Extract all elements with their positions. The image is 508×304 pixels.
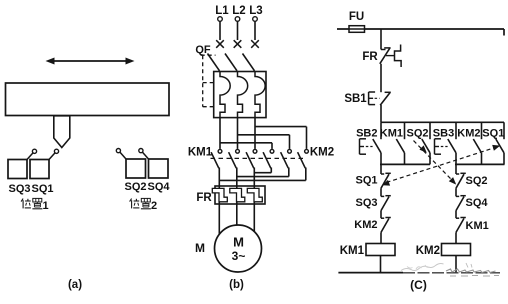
caption (C) — [410, 278, 427, 292]
contactor linkage dashed line — [211, 157, 304, 159]
breaker QF pole 3 cross — [251, 40, 259, 48]
wire FR to SB1 — [380, 64, 382, 92]
label SB3 (branch contact) — [433, 128, 454, 140]
contactor KM2 main contact 1 — [263, 149, 274, 168]
contactor KM1 main contact 1 — [211, 149, 222, 168]
wire FU-bus to FR contact — [380, 29, 382, 50]
svg-text:SB2: SB2 — [356, 128, 377, 140]
wire pole 3 below QF — [254, 118, 256, 149]
breaker QF body box — [214, 72, 266, 118]
wire KM1 interlock to KM2 coil — [455, 232, 457, 243]
breaker QF trip linkage (dashed) — [201, 55, 216, 106]
supply terminal L1 — [218, 17, 223, 22]
label KM1 (coil) — [340, 245, 365, 257]
limit switch SQ2 NO contact — [422, 122, 430, 164]
control bus after SB1 — [381, 121, 504, 123]
svg-text:SQ4: SQ4 — [147, 181, 170, 193]
wire L2 drop — [237, 22, 239, 41]
label SB1 — [344, 93, 367, 105]
right parallel-group bottom bus — [455, 163, 505, 165]
contactor coil KM1 — [366, 244, 395, 256]
control bottom bus continued (faded) — [403, 272, 500, 274]
watermark scribble — [401, 263, 499, 276]
start button SB3 contact — [448, 122, 456, 164]
limit switch SQ2 NC contact — [456, 173, 466, 188]
mechanical link SQ1 (dashed with arrows) — [382, 145, 500, 186]
contactor coil KM2 — [442, 244, 471, 256]
fuse FU — [349, 26, 365, 33]
wire left branch to SQ1 — [380, 164, 382, 174]
label SQ2 (NC) — [466, 175, 488, 187]
wire L3 drop — [254, 22, 256, 41]
start button SB2 contact — [373, 122, 381, 164]
caption (a) — [68, 279, 82, 291]
wire right branch to SQ2 — [455, 164, 457, 174]
limit switch SQ4 lever — [139, 149, 149, 160]
contactor KM2 interlock NC contact — [381, 218, 391, 233]
label SQ4 — [466, 197, 489, 209]
label L3 — [249, 5, 262, 17]
control bus top — [337, 29, 504, 36]
svg-text:KM2: KM2 — [416, 245, 440, 257]
svg-text:SQ4: SQ4 — [466, 197, 489, 209]
svg-text:M: M — [233, 235, 244, 250]
svg-text:L1: L1 — [215, 5, 229, 17]
wire KM2 contact1 crossback to phase3 — [255, 168, 271, 173]
breaker QF pole 2 cross — [234, 40, 242, 48]
label FU — [349, 11, 364, 23]
limit switch SQ2 box — [126, 159, 146, 178]
svg-text:SQ2: SQ2 — [406, 128, 428, 140]
label M — [195, 241, 205, 255]
wire KM1 contact 2 to FR — [236, 168, 238, 189]
wire SQ3 to KM2 interlock — [380, 211, 382, 219]
label SQ3 — [355, 197, 377, 209]
svg-text:(C): (C) — [410, 278, 427, 292]
limit switch SQ3 NC contact — [381, 196, 391, 211]
label SQ1 — [31, 183, 53, 195]
breaker QF pole 2 blade — [225, 54, 237, 71]
double-headed motion arrow — [46, 58, 135, 65]
svg-text:2: 2 — [151, 200, 157, 212]
wire pole 2 below QF — [237, 118, 239, 149]
svg-text:1: 1 — [42, 200, 48, 212]
cam dog on platform — [54, 116, 70, 148]
motor M circle — [215, 225, 262, 272]
label KM2 (interlock) — [354, 219, 377, 231]
svg-text:SQ3: SQ3 — [8, 183, 30, 195]
label SQ1 (branch contact) — [482, 128, 504, 140]
wire tap phase3 to KM2 — [255, 127, 307, 149]
FR heater element 2 — [230, 188, 245, 201]
svg-text:KM2: KM2 — [457, 128, 480, 140]
svg-text:KM1: KM1 — [466, 220, 489, 232]
label SQ2 — [124, 181, 146, 193]
svg-text:3~: 3~ — [232, 249, 246, 263]
thermal relay FR box — [215, 186, 265, 204]
contactor KM2 main contact 3 — [298, 149, 309, 168]
thermal relay FR break contact — [380, 45, 401, 68]
limit switch SQ2 lever — [116, 149, 126, 160]
contactor KM2 main contact 2 — [281, 149, 292, 168]
svg-text:SB3: SB3 — [433, 128, 454, 140]
breaker QF pole 3 trip element — [255, 72, 265, 118]
svg-text:SQ3: SQ3 — [355, 197, 377, 209]
svg-text:KM1: KM1 — [188, 147, 213, 159]
svg-text:L2: L2 — [232, 5, 245, 17]
left parallel-group bottom bus — [380, 163, 430, 165]
wire pole 1 below QF — [219, 118, 221, 149]
control bottom bus — [338, 272, 403, 274]
label SB2 (branch contact) — [356, 128, 377, 140]
label FR (c) — [362, 51, 378, 63]
svg-text:FU: FU — [349, 11, 364, 23]
wire FR to motor 3 — [253, 202, 255, 234]
svg-text:KM1: KM1 — [380, 128, 403, 140]
svg-text:FR: FR — [196, 192, 212, 204]
FR heater element 3 — [247, 188, 262, 201]
wire SQ2 to SQ4 — [455, 188, 457, 196]
limit switch SQ4 NC contact — [456, 196, 466, 211]
wire L1 drop — [219, 22, 221, 41]
svg-text:SQ1: SQ1 — [31, 183, 53, 195]
supply terminal L3 — [253, 17, 258, 22]
label position-2 (wei zhi 2) — [130, 198, 157, 212]
contactor KM1 interlock NC contact — [456, 218, 466, 233]
label SQ4 — [147, 181, 170, 193]
breaker QF pole 1 blade — [208, 54, 220, 71]
label L1 — [215, 5, 229, 17]
limit switch SQ4 box — [149, 159, 169, 178]
svg-text:KM2: KM2 — [354, 219, 377, 231]
svg-text:(a): (a) — [68, 279, 82, 291]
svg-text:(b): (b) — [229, 279, 244, 291]
breaker QF pole 2 trip element — [238, 72, 248, 118]
label position-1 (wei zhi 1) — [21, 198, 48, 212]
label SQ3 — [8, 183, 30, 195]
svg-text:SB1: SB1 — [344, 93, 367, 105]
FR heater element 1 — [212, 188, 227, 201]
label KM1 (interlock) — [466, 220, 489, 232]
wire KM1 contact 3 to FR — [253, 168, 255, 189]
label L2 — [232, 5, 245, 17]
svg-text:KM1: KM1 — [340, 245, 365, 257]
wire KM2 contact3 crossback to phase1 — [220, 168, 306, 181]
label KM2 (main) — [310, 147, 334, 159]
wire SB1 to bus2 — [380, 105, 382, 122]
mechanical link SQ2 (dashed with arrows) — [414, 141, 457, 185]
contactor KM2 self-hold contact — [473, 122, 481, 164]
wire KM2 interlock to KM1 coil — [380, 232, 382, 243]
limit switch SQ1 NC contact — [381, 173, 391, 188]
label FR (b) — [196, 192, 212, 204]
workbench platform — [6, 83, 170, 116]
svg-text:SQ2: SQ2 — [124, 181, 146, 193]
limit switch SQ1 box — [30, 160, 49, 179]
label SQ1 (NC) — [355, 175, 377, 187]
wire KM2 coil to bottom bus — [455, 256, 457, 273]
svg-text:SQ2: SQ2 — [466, 175, 488, 187]
label KM1 (branch contact) — [380, 128, 403, 140]
SB3 pushbutton actuator — [435, 139, 448, 154]
label KM2 (branch contact) — [457, 128, 480, 140]
wire tap phase1 to KM2 — [220, 143, 272, 149]
contactor KM1 main contact 2 — [229, 149, 240, 168]
caption (b) — [229, 279, 244, 291]
label KM1 (main) — [188, 147, 213, 159]
limit switch SQ1 NO contact — [496, 122, 504, 164]
SB2 pushbutton actuator — [360, 139, 373, 154]
label QF — [195, 44, 211, 56]
wire SQ4 to KM1 interlock — [455, 211, 457, 219]
svg-text:QF: QF — [195, 44, 211, 56]
svg-text:SQ1: SQ1 — [355, 175, 377, 187]
wire tap phase2 to KM2 — [238, 135, 290, 149]
limit switch SQ3 box — [8, 160, 27, 179]
breaker QF pole 1 trip element — [220, 72, 230, 118]
contactor KM1 self-hold contact — [396, 122, 404, 164]
breaker QF pole 3 blade — [243, 54, 255, 71]
limit switch SQ3 lever — [27, 149, 37, 159]
limit switch SQ1 lever — [49, 149, 59, 159]
svg-text:KM2: KM2 — [310, 147, 334, 159]
supply terminal L2 — [235, 17, 240, 22]
label KM2 (coil) — [416, 245, 440, 257]
stop button SB1 (NC) — [369, 92, 391, 105]
breaker QF pole 1 cross — [216, 40, 224, 48]
svg-text:L3: L3 — [249, 5, 262, 17]
svg-text:SQ1: SQ1 — [482, 128, 504, 140]
svg-text:FR: FR — [362, 51, 378, 63]
wire KM1 contact 1 to FR — [218, 168, 220, 189]
wire KM2 contact2 crossback to phase2 — [238, 168, 289, 177]
svg-text:M: M — [195, 241, 205, 255]
contactor KM1 main contact 3 — [246, 149, 257, 168]
wire FR to motor 2 — [236, 202, 238, 234]
wire KM1 coil to bottom bus — [380, 256, 382, 273]
wire FR to motor 1 — [218, 202, 220, 234]
wire SQ1 to SQ3 — [380, 188, 382, 196]
label SQ2 (branch contact) — [406, 128, 428, 140]
